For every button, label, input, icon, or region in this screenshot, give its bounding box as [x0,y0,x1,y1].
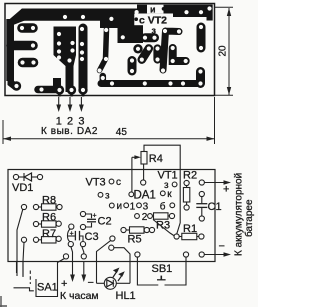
riser at bus left end [100,76,107,83]
svg-text:C2: C2 [98,216,112,228]
board outline (copper side) [5,4,215,96]
capacitor C2 [80,211,96,229]
pad 2 of DA2 row [67,85,76,94]
svg-text:и: и [150,4,156,14]
trace from pad to diagonal (center-left) [100,29,107,71]
DA1 pin 2 row [135,214,140,219]
svg-text:SA1: SA1 [37,282,58,294]
LED HL1 [97,262,131,290]
label box с VT2 (VT2 drain) [134,14,173,26]
svg-text:VT3: VT3 [86,177,106,189]
svg-text:C3: C3 [85,231,99,243]
svg-text:−: − [88,277,94,289]
center vertical dumbbell [153,49,161,60]
copper blob below band (center) [100,17,143,28]
svg-text:R3: R3 [156,220,170,232]
wire R4 bottom lead [143,164,145,180]
svg-text:20: 20 [217,45,228,57]
dimension 45 (below top board) [3,97,215,144]
wire HL1 outer (left) [97,241,111,262]
svg-text:б: б [160,200,166,212]
capacitor C3 [67,224,85,247]
chamfer of border trace [8,9,26,28]
copper band along top edge [9,5,213,22]
center diagonal dumbbell [142,49,149,60]
DA2 copper area [54,27,77,93]
chip DA1 labels and pads [141,180,146,185]
svg-text:SB1: SB1 [152,263,173,275]
svg-text:+: + [223,183,229,195]
svg-text:+: + [70,231,74,238]
extra pad on trace near diagonal [133,44,142,53]
wire HL1 inner (right) [114,248,130,262]
svg-text:+: + [61,278,67,290]
svg-text:батарее: батарее [243,199,255,237]
pad 3 of DA2 row [78,85,87,94]
svg-text:45: 45 [116,127,128,138]
left vertical dumbbell (center) [128,61,137,72]
svg-text:VD1: VD1 [12,182,33,194]
arrow to R4 [132,156,138,158]
wire from pad down through edge [23,242,24,276]
copper tongue (center) [118,26,144,43]
resistor R5 [121,227,155,233]
notch above bottom-left bar [53,78,61,89]
DA2 pad column right [79,28,88,88]
svg-text:R2: R2 [183,170,197,182]
battery minus wire and arrow [204,254,228,256]
wires C3 pads to edge pads [71,247,73,262]
dumbbell pad pair mid-left [23,58,34,68]
svg-text:и: и [117,201,123,212]
svg-text:+: + [93,213,97,220]
pad end of left border trace [12,81,21,90]
left border trace [6,19,14,81]
page corner mark [0,296,7,307]
battery plus arrow [199,180,204,185]
svg-text:К часам: К часам [60,290,99,302]
dumbbell pad pair top-left [22,23,33,33]
vertical dumbbell SE [196,72,205,84]
label box и (VT2 source) [147,5,164,14]
svg-text:DA1: DA1 [134,190,156,202]
pad dot for с [134,17,138,21]
wire R4 box right into board [177,170,180,234]
dimension 20 (right of top board) [215,7,234,95]
svg-text:К выв. DA2: К выв. DA2 [41,126,98,137]
pad 1 of DA2 row [55,85,64,94]
label box з (VT2 gate) [150,26,160,35]
pin callout arrows 1 2 3 [59,97,82,108]
svg-text:К аккумуляторной: К аккумуляторной [234,173,245,256]
node pads bottom row [63,254,68,259]
node pad left of R7 [21,237,26,242]
L-trace from з pad [163,31,179,70]
R4 box above board [144,145,180,169]
resistor R3 [152,213,174,219]
capacitor C1 [196,191,207,221]
svg-text:R6: R6 [42,212,56,224]
wire from pad down to SA1 side [17,209,23,276]
vertical dumbbell NE [197,27,206,48]
svg-text:2: 2 [142,212,148,223]
diode VD1 [13,173,42,181]
left trace bend to pad [8,76,18,90]
DA1 pin row 1,3 and VT1 base б [124,203,129,208]
pin stubs through edge [58,90,61,97]
svg-text:−: − [219,241,225,253]
node pad left of R8 [21,204,26,209]
push button SB1 [137,257,186,285]
svg-text:1: 1 [130,201,136,212]
pad holes (white) on copper [14,6,211,92]
switch SA1 [14,258,65,296]
svg-text:R8: R8 [42,195,56,207]
svg-text:с: с [116,177,121,188]
LED arrows [113,270,118,278]
wire from R4 arrow down to DA1 left pad [131,157,133,192]
center dumbbell horizontal [145,33,155,42]
ground bus trace bottom [101,80,201,87]
pad dot for и [162,7,166,11]
svg-text:R5: R5 [128,234,142,246]
svg-text:3: 3 [143,201,149,212]
T-trace right [173,48,186,61]
svg-text:з: з [164,180,169,191]
svg-text:R7: R7 [42,228,56,240]
svg-text:HL1: HL1 [116,290,136,302]
svg-text:C1: C1 [208,201,222,213]
svg-text:з: з [105,191,110,202]
К часам arrows [72,262,74,279]
bottom-left bar trace [38,86,60,94]
wire R3 to R1 node [153,220,175,237]
resistor R4 [141,152,147,165]
bar trace from left border [11,41,33,51]
board outline (component side) [8,170,215,262]
svg-text:R4: R4 [149,153,163,165]
